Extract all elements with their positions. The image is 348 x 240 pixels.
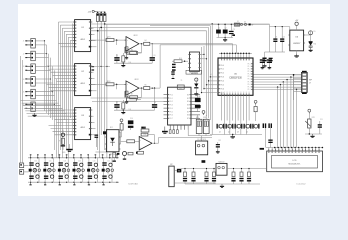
svg-text:P0.0: P0.0 xyxy=(170,94,173,96)
wire U11 bottom pins xyxy=(170,125,188,130)
capacitor C bypass MCU 2 xyxy=(267,59,272,65)
wire long horizontals mid xyxy=(91,98,164,101)
svg-text:P0.3: P0.3 xyxy=(170,105,173,107)
driver cell 4 xyxy=(73,158,85,185)
wire mid bus verticals xyxy=(59,22,73,158)
capacitor C opto left xyxy=(103,131,106,134)
wire connector outputs to bus xyxy=(35,40,56,108)
svg-text:C9: C9 xyxy=(275,36,277,38)
svg-text:C11: C11 xyxy=(320,119,323,121)
wire to op-amp U4A xyxy=(114,39,126,45)
wire MCU right pins to ISP xyxy=(254,75,302,90)
wire filter bottom xyxy=(114,63,152,64)
fuse F1 xyxy=(234,23,239,26)
svg-text:P1.6: P1.6 xyxy=(248,79,251,81)
ground bypass 2 xyxy=(268,65,272,69)
resistor R output U4A xyxy=(142,42,161,45)
wire to op-amp U4B xyxy=(114,84,126,90)
svg-text:P1.4: P1.4 xyxy=(248,74,251,76)
ground bottom row xyxy=(220,184,224,188)
svg-text:Q3: Q3 xyxy=(237,131,239,133)
svg-text:+5: +5 xyxy=(211,74,213,76)
ground dcdc cap xyxy=(216,150,220,154)
svg-text:LCD-16x2: LCD-16x2 xyxy=(296,183,306,185)
svg-text:C21: C21 xyxy=(49,160,52,162)
wire LCD bus xyxy=(266,147,323,149)
connector CON5 xyxy=(23,89,35,99)
IC U5 C8051F330 MCU xyxy=(218,58,253,95)
IC U3 4051 xyxy=(73,108,92,140)
ground transistor row xyxy=(230,135,235,139)
wire bus to U2 pins xyxy=(47,66,75,91)
svg-text:P0.3: P0.3 xyxy=(220,77,224,79)
svg-text:C24: C24 xyxy=(93,160,96,162)
LED D3 xyxy=(194,78,198,92)
connector CON1 xyxy=(23,39,35,49)
capacitor C vert pair xyxy=(113,153,120,162)
wire op-amp2 output drop xyxy=(154,87,155,101)
wire regulator input xyxy=(251,24,290,52)
svg-text:D4: D4 xyxy=(244,21,246,23)
wire power bus top xyxy=(105,24,252,26)
capacitor C row right 1 xyxy=(263,123,267,147)
svg-text:P0.6: P0.6 xyxy=(170,115,173,117)
wire right bundle drops xyxy=(277,74,297,148)
svg-text:C13: C13 xyxy=(198,96,201,98)
capacitor C dcdc2 xyxy=(202,160,206,163)
svg-text:P0.2: P0.2 xyxy=(220,73,224,75)
IC U2 4051 xyxy=(73,64,92,96)
power flag pot xyxy=(308,109,311,112)
svg-text:R8: R8 xyxy=(126,49,128,51)
svg-text:P0.1: P0.1 xyxy=(220,69,224,71)
svg-text:PC-RS232: PC-RS232 xyxy=(190,72,198,74)
svg-text:8-CH DAS: 8-CH DAS xyxy=(128,183,138,186)
net label frame xyxy=(186,70,202,74)
wire left bus verticals xyxy=(45,41,57,158)
capacitor C in1 xyxy=(273,26,277,52)
svg-text:LM358: LM358 xyxy=(134,79,139,81)
wire regulator bottom xyxy=(270,51,286,53)
capacitor C ic2 pins xyxy=(92,66,111,71)
svg-text:R13 R14 R15: R13 R14 R15 xyxy=(96,11,105,13)
svg-text:J3: J3 xyxy=(23,66,25,68)
resistor R reset xyxy=(172,60,188,63)
svg-text:P1.3: P1.3 xyxy=(248,71,251,73)
capacitor C u11 top xyxy=(171,71,174,79)
svg-text:R12: R12 xyxy=(110,127,113,129)
power flag opto xyxy=(120,119,123,122)
wire U1-U3 outputs xyxy=(92,22,97,135)
svg-text:P0.6: P0.6 xyxy=(220,88,224,90)
svg-text:LCD: LCD xyxy=(292,160,297,162)
wire bundle to MCU left pins xyxy=(201,46,218,93)
driver cell 6 xyxy=(102,158,114,185)
power flag packs xyxy=(202,111,205,114)
svg-text:R4: R4 xyxy=(145,40,147,42)
resistor R base xyxy=(254,100,257,121)
svg-text:R5: R5 xyxy=(131,49,133,51)
wire risers to cells xyxy=(0,0,1,1)
svg-text:B7: B7 xyxy=(187,118,189,120)
transistor Q2 group xyxy=(226,124,234,134)
capacitor C out pair xyxy=(262,52,272,64)
capacitor C pot xyxy=(318,121,322,134)
ground filter xyxy=(121,63,125,67)
wire lower-left bus xyxy=(21,56,69,163)
resistor R filter vertical xyxy=(122,53,125,63)
capacitor C row 4 xyxy=(212,168,216,184)
svg-text:P0.4: P0.4 xyxy=(170,108,173,110)
connector J8 battery xyxy=(169,164,216,187)
transistor Q4 group xyxy=(244,124,252,134)
resistor R input U4B xyxy=(91,81,114,86)
ground connector column xyxy=(32,113,36,117)
svg-text:R16: R16 xyxy=(179,58,182,60)
capacitor C row right 2 xyxy=(268,123,272,147)
resistor R op3 in xyxy=(121,140,140,143)
IC U10 xyxy=(216,160,227,175)
capacitor C in2 xyxy=(280,26,284,52)
wire bus to U1 pins xyxy=(59,22,75,47)
IC U6 regulator xyxy=(288,30,305,51)
connector J7 ISP xyxy=(302,71,313,94)
wire cell bottom bus xyxy=(28,182,119,183)
svg-text:104: 104 xyxy=(129,62,132,64)
resistor R feedback U4B xyxy=(125,87,143,98)
driver cell 1 xyxy=(29,158,41,185)
svg-text:J4: J4 xyxy=(23,79,25,81)
svg-text:C23: C23 xyxy=(78,160,81,162)
capacitor C filter xyxy=(114,54,119,63)
resistor R pullup2 xyxy=(136,151,144,154)
svg-text:RP1: RP1 xyxy=(312,117,315,119)
ground pot xyxy=(310,134,314,138)
resistor R led xyxy=(309,46,312,48)
svg-text:R1: R1 xyxy=(109,37,111,39)
svg-text:RN2: RN2 xyxy=(203,117,206,119)
ground cell array xyxy=(66,144,72,152)
svg-text:J5: J5 xyxy=(23,92,25,94)
MCU bottom pins xyxy=(221,93,250,95)
svg-text:Q1: Q1 xyxy=(219,131,221,133)
svg-text:P0.0: P0.0 xyxy=(220,65,224,67)
MCU top pins xyxy=(221,58,250,60)
capacitor C ic3 out xyxy=(95,135,99,148)
wire packs bottom xyxy=(188,125,212,141)
wire op outputs to MCU xyxy=(152,44,236,88)
svg-text:B5: B5 xyxy=(187,111,189,113)
svg-text:P0.5: P0.5 xyxy=(220,84,224,86)
capacitor C bulk 1 xyxy=(216,24,221,37)
svg-text:C8051F330: C8051F330 xyxy=(229,77,242,80)
trimmer RV3 xyxy=(103,12,106,22)
resistor pack RN1 xyxy=(196,115,202,134)
svg-text:C6: C6 xyxy=(154,55,156,57)
svg-text:C12: C12 xyxy=(218,140,221,142)
ground op-amp U4B xyxy=(125,100,128,104)
ground U11 xyxy=(162,127,168,134)
capacitor C filter right xyxy=(152,101,157,110)
svg-text:C2: C2 xyxy=(225,28,227,30)
connector CON3 xyxy=(23,64,35,74)
svg-text:P0.5: P0.5 xyxy=(170,111,173,113)
svg-text:L1: L1 xyxy=(34,174,36,176)
svg-text:L3: L3 xyxy=(64,174,66,176)
svg-text:LM358: LM358 xyxy=(133,35,138,37)
capacitor C row 7 xyxy=(247,168,251,184)
MCU right pins xyxy=(248,63,253,91)
LED D2 xyxy=(305,31,313,48)
svg-text:P1.1: P1.1 xyxy=(248,66,251,68)
svg-text:C14: C14 xyxy=(130,118,133,120)
MCU top pin numbers xyxy=(221,60,250,93)
trimmer RV2 xyxy=(100,12,103,22)
svg-text:R6: R6 xyxy=(145,85,147,87)
connector CON4 xyxy=(23,77,35,87)
svg-text:P1.5: P1.5 xyxy=(248,76,251,78)
wire op-amp1 output drop xyxy=(151,44,153,54)
schematic page xyxy=(18,4,330,196)
svg-text:Q2: Q2 xyxy=(228,131,230,133)
svg-text:B6: B6 xyxy=(187,115,189,117)
resistor R op3 fb xyxy=(141,133,148,136)
svg-text:R11: R11 xyxy=(314,44,317,46)
wire pot bottom xyxy=(305,133,322,134)
svg-text:D6: D6 xyxy=(196,80,198,82)
ground bypass 1 xyxy=(261,65,265,69)
wire opto area xyxy=(96,128,131,152)
ground regulator xyxy=(296,51,298,54)
svg-text:P0.7: P0.7 xyxy=(170,118,173,120)
op-amp U4C xyxy=(139,137,152,151)
resistor R filter horizontal xyxy=(127,51,142,54)
svg-text:D5: D5 xyxy=(314,31,316,33)
driver cell 3 xyxy=(58,158,70,185)
wire caps common xyxy=(217,37,234,38)
svg-text:B1: B1 xyxy=(187,98,189,100)
transistor Q6 riser xyxy=(59,130,65,151)
ground op-amp U4A xyxy=(125,55,128,59)
transistor Q3 group xyxy=(235,124,243,134)
svg-text:C22: C22 xyxy=(64,160,67,162)
transistor Q1 group xyxy=(217,124,225,134)
driver cell 5 xyxy=(87,158,99,185)
connector P3 xyxy=(172,64,176,71)
resistor R filter horizontal xyxy=(127,98,142,101)
svg-text:P1.2: P1.2 xyxy=(248,68,251,70)
LCD module LCD1 xyxy=(267,151,323,172)
wire filter bottom xyxy=(114,110,155,111)
trimpot RV4 xyxy=(305,114,311,134)
diode D1 xyxy=(240,23,245,25)
svg-text:B3: B3 xyxy=(187,105,189,107)
svg-text:P1.0: P1.0 xyxy=(248,84,251,86)
svg-text:B2: B2 xyxy=(187,101,189,103)
svg-text:L4: L4 xyxy=(78,174,80,176)
wire bottom row gnd bus xyxy=(185,183,260,185)
wire bottom mid bus xyxy=(181,168,266,170)
value labels xyxy=(62,11,323,153)
IC U7 xyxy=(188,52,201,75)
resistor R u11 bottom xyxy=(169,130,178,134)
op-amp U4B xyxy=(125,81,140,95)
svg-text:R10: R10 xyxy=(144,134,147,136)
wire bus to U3 pins xyxy=(49,110,75,135)
label LCD left xyxy=(260,148,264,150)
MCU left pins xyxy=(218,65,224,95)
ground C out xyxy=(263,64,267,68)
svg-text:J1: J1 xyxy=(23,41,25,43)
svg-text:P1.2: P1.2 xyxy=(248,89,251,91)
capacitor C bypass MCU 1 xyxy=(260,59,265,65)
transistor Q5 group xyxy=(252,124,259,129)
svg-text:C20: C20 xyxy=(34,160,37,162)
ground LED xyxy=(309,48,313,52)
wire MCU bottom pin drops xyxy=(222,95,250,134)
resistor R feedback U4A xyxy=(125,43,143,54)
wire LCD pins to bus xyxy=(269,148,319,149)
svg-text:L5: L5 xyxy=(93,174,95,176)
wire op3 output xyxy=(148,135,212,144)
capacitor C bypass pair xyxy=(195,95,201,112)
transistor Q7 xyxy=(123,152,134,160)
resistor R out opto xyxy=(141,127,149,132)
wire center bus verticals xyxy=(98,21,107,157)
IC U11 xyxy=(164,85,201,125)
svg-text:C10: C10 xyxy=(282,36,285,38)
capacitor C row 3 xyxy=(204,168,208,184)
svg-text:P1.0: P1.0 xyxy=(248,63,251,65)
svg-text:DC-DC MOD: DC-DC MOD xyxy=(197,139,207,141)
svg-text:R9: R9 xyxy=(144,127,146,129)
svg-text:J7: J7 xyxy=(309,82,311,84)
svg-text:J2: J2 xyxy=(23,53,25,55)
capacitor C dcdc xyxy=(216,142,220,150)
capacitor C row 2 xyxy=(191,168,195,184)
svg-text:Q4: Q4 xyxy=(246,131,248,133)
capacitor C row 5 xyxy=(231,168,235,184)
cell value labels xyxy=(34,160,110,175)
svg-text:P0.2: P0.2 xyxy=(170,101,173,103)
svg-text:R7: R7 xyxy=(131,94,133,96)
capacitor C row 1 xyxy=(183,168,187,184)
svg-text:LM2937: LM2937 xyxy=(293,43,301,45)
op-amp U4A xyxy=(125,37,140,51)
svg-text:P0.4: P0.4 xyxy=(220,81,224,83)
capacitor C right drop xyxy=(268,140,272,144)
resistor R input U4A xyxy=(91,37,114,42)
connector CON2 xyxy=(23,51,35,61)
svg-text:P0.7: P0.7 xyxy=(220,92,224,94)
svg-text:B0: B0 xyxy=(187,94,189,96)
svg-text:C5: C5 xyxy=(116,55,118,57)
power +5V flag regulator xyxy=(295,20,299,30)
svg-text:F1: F1 xyxy=(237,21,239,23)
ground D3 xyxy=(194,92,198,96)
svg-text:Y1: Y1 xyxy=(181,80,183,82)
svg-text:MC1602E-SYL: MC1602E-SYL xyxy=(289,164,301,166)
wire cell top bus xyxy=(28,154,119,158)
resistor R opto vertical xyxy=(120,124,123,133)
svg-text:C8: C8 xyxy=(154,102,156,104)
svg-text:P1.7: P1.7 xyxy=(248,81,251,83)
capacitor C bulk 2 xyxy=(223,24,228,37)
svg-text:104: 104 xyxy=(129,109,132,111)
LCD pins xyxy=(268,149,320,153)
trimmer RV1 xyxy=(96,12,99,22)
resistor pack RN2 xyxy=(203,115,209,134)
IC U1 4051 xyxy=(73,20,92,52)
ground power entry xyxy=(223,38,227,42)
wire transistor row bottom xyxy=(210,134,262,135)
svg-text:P1.1: P1.1 xyxy=(248,86,251,88)
svg-text:RN1: RN1 xyxy=(196,117,199,119)
wire MCU top pin bus xyxy=(219,53,252,58)
svg-text:L6: L6 xyxy=(107,174,109,176)
capacitor C opto xyxy=(128,120,133,127)
capacitor C filter xyxy=(114,101,119,110)
capacitor C3 xyxy=(229,24,235,37)
resistor R filter vertical xyxy=(122,100,125,110)
capacitor C filter right xyxy=(150,54,155,63)
svg-text:BT: BT xyxy=(170,164,172,166)
motor M1 xyxy=(177,169,181,173)
ground filter xyxy=(121,110,125,114)
svg-text:L2: L2 xyxy=(49,174,51,176)
resistor bias U4B xyxy=(125,91,128,100)
svg-text:C1: C1 xyxy=(218,28,220,30)
connector DC jack xyxy=(244,23,254,26)
connector CON8 xyxy=(20,163,29,174)
svg-text:B4: B4 xyxy=(187,108,189,110)
resistor R output U4B xyxy=(142,87,161,90)
svg-text:U11: U11 xyxy=(179,87,182,89)
driver cell 2 xyxy=(43,158,55,185)
power +5V flag xyxy=(88,10,97,13)
optocoupler U8 xyxy=(105,130,121,156)
resistor bias U4A xyxy=(125,47,128,56)
wire top bus nested xyxy=(91,23,270,134)
svg-text:C3: C3 xyxy=(233,29,235,31)
wire ISP to MCU xyxy=(293,74,302,100)
svg-text:C7: C7 xyxy=(116,102,118,104)
wire U7 right pins xyxy=(201,54,207,60)
svg-text:R2: R2 xyxy=(109,81,111,83)
DC-DC converter U9 xyxy=(196,139,208,155)
svg-text:C25: C25 xyxy=(107,160,110,162)
connector CON6 xyxy=(23,102,35,112)
svg-text:P0.1: P0.1 xyxy=(170,98,173,100)
capacitor C row 6 xyxy=(239,168,243,184)
